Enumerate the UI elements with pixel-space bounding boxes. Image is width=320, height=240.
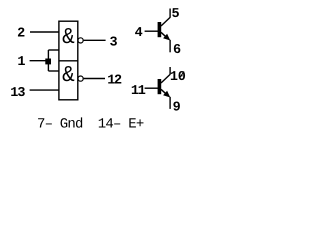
svg-text:&: & [62, 26, 75, 51]
svg-text:&: & [62, 64, 75, 89]
svg-text:4: 4 [135, 26, 143, 41]
svg-text:7– Gnd 14– E+: 7– Gnd 14– E+ [37, 116, 144, 132]
svg-text:12: 12 [107, 73, 122, 88]
svg-text:1: 1 [17, 55, 25, 70]
svg-text:3: 3 [109, 36, 117, 51]
svg-text:6: 6 [173, 43, 181, 58]
svg-text:5: 5 [172, 7, 180, 22]
svg-text:9: 9 [173, 100, 181, 115]
svg-text:13: 13 [10, 86, 25, 101]
svg-text:11: 11 [131, 84, 146, 99]
svg-text:2: 2 [17, 27, 25, 42]
